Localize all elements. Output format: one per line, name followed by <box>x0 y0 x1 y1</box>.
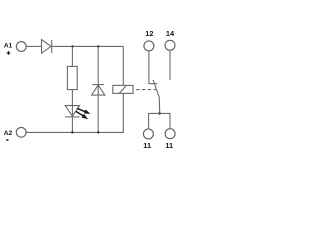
node junction bottom right <box>97 131 99 133</box>
terminal circle 11 right <box>165 129 175 139</box>
wire A1 to diode <box>26 45 41 47</box>
wire coil to bottom rail <box>122 93 124 132</box>
svg-text:A1: A1 <box>4 43 13 50</box>
LED D2 <box>65 106 79 117</box>
LED emission arrows <box>76 108 90 119</box>
terminal circle A1 <box>16 42 26 52</box>
node junction top left (resistor branch) <box>71 45 73 47</box>
mechanical link dashed <box>136 89 156 91</box>
jumper wire between 11 terminals <box>149 113 170 128</box>
bottom rail wire A2 <box>26 131 124 133</box>
terminal circle 14 <box>165 40 175 50</box>
top wire from diode to coil corner <box>52 45 124 47</box>
wire 12 down to NC contact <box>148 51 150 84</box>
svg-text:12: 12 <box>145 29 153 38</box>
diode D1 (series, anode left) <box>42 40 52 54</box>
wire branch down through freewheel diode <box>97 46 99 132</box>
terminal circle 11 left <box>143 129 153 139</box>
terminal circle 12 <box>144 41 154 51</box>
node junction bottom left <box>71 131 73 133</box>
node junction lever to jumper <box>158 112 161 115</box>
wire 14 down (NO contact) <box>169 50 171 80</box>
wire corner down to relay coil <box>122 46 124 85</box>
minus polarity mark <box>6 139 9 140</box>
NC contact foot <box>148 83 157 85</box>
resistor R1 <box>67 66 77 89</box>
wire branch down to resistor <box>71 46 73 66</box>
node junction top right (diode branch) <box>97 45 99 47</box>
contact lever (common) <box>153 80 160 114</box>
relay coil K1 <box>113 85 133 93</box>
svg-text:11: 11 <box>143 141 151 150</box>
svg-text:11: 11 <box>165 141 173 150</box>
freewheel diode D3 (cathode up) <box>92 85 105 96</box>
terminal circle A2 <box>16 127 26 137</box>
wire resistor to LED <box>71 90 73 133</box>
svg-text:A2: A2 <box>4 130 13 137</box>
plus polarity mark <box>7 51 11 55</box>
svg-text:14: 14 <box>166 29 175 38</box>
